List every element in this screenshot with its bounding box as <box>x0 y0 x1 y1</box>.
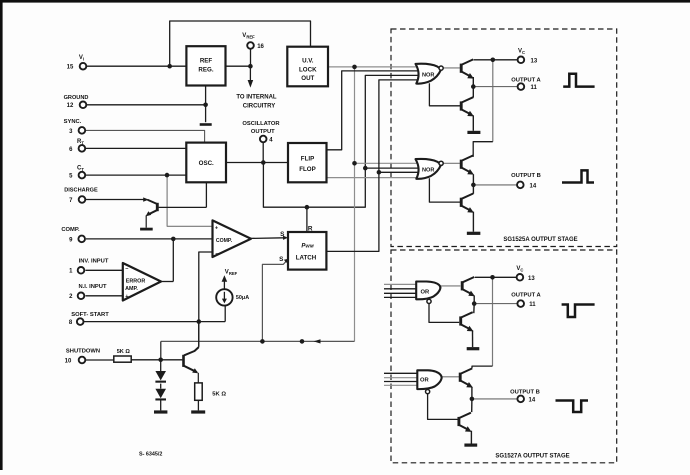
svg-text:S: S <box>279 256 284 263</box>
svg-text:50μA: 50μA <box>236 295 249 301</box>
svg-text:CIRCUITRY: CIRCUITRY <box>243 104 275 110</box>
svg-text:SOFT- START: SOFT- START <box>71 312 109 318</box>
svg-text:NOR: NOR <box>422 168 434 174</box>
svg-text:14: 14 <box>530 183 537 189</box>
svg-text:+: + <box>215 225 218 231</box>
svg-text:12: 12 <box>67 103 74 109</box>
svg-text:OUTPUT: OUTPUT <box>251 129 275 135</box>
svg-text:COMP.: COMP. <box>61 227 80 233</box>
svg-text:GROUND: GROUND <box>64 95 89 101</box>
svg-text:LOCK: LOCK <box>299 66 317 73</box>
svg-text:NOR: NOR <box>422 72 434 78</box>
svg-text:COMP.: COMP. <box>216 238 233 244</box>
svg-text:REF: REF <box>200 57 213 64</box>
svg-text:CT: CT <box>77 166 84 173</box>
svg-text:SG1527A OUTPUT STAGE: SG1527A OUTPUT STAGE <box>495 454 569 460</box>
svg-text:S- 6345/2: S- 6345/2 <box>139 452 162 458</box>
svg-text:14: 14 <box>529 397 536 403</box>
svg-text:INV. INPUT: INV. INPUT <box>79 259 109 265</box>
svg-text:13: 13 <box>531 58 538 64</box>
svg-text:11: 11 <box>529 302 536 308</box>
svg-text:11: 11 <box>531 85 538 91</box>
svg-text:16: 16 <box>257 44 264 50</box>
svg-text:TO INTERNAL: TO INTERNAL <box>236 95 277 101</box>
svg-text:REG.: REG. <box>198 66 213 73</box>
svg-text:OR: OR <box>420 289 430 295</box>
svg-text:N.I. INPUT: N.I. INPUT <box>78 284 106 290</box>
svg-text:SHUTDOWN: SHUTDOWN <box>66 349 100 355</box>
svg-text:5K Ω: 5K Ω <box>212 392 226 398</box>
svg-text:+: + <box>125 294 128 300</box>
svg-text:R: R <box>308 225 313 232</box>
svg-text:FLIP: FLIP <box>301 156 314 163</box>
svg-text:OUTPUT B: OUTPUT B <box>510 390 540 396</box>
svg-text:FLOP: FLOP <box>299 166 316 173</box>
svg-text:−: − <box>215 252 219 258</box>
svg-text:DISCHARGE: DISCHARGE <box>64 187 98 193</box>
svg-text:OR: OR <box>420 377 430 383</box>
svg-text:VREF: VREF <box>242 33 255 40</box>
svg-text:13: 13 <box>528 276 535 282</box>
svg-text:LATCH: LATCH <box>296 254 317 261</box>
svg-text:−: − <box>125 267 128 273</box>
svg-text:S: S <box>280 231 285 238</box>
svg-text:OSCILLATOR: OSCILLATOR <box>242 121 280 127</box>
svg-text:AMP.: AMP. <box>125 286 138 292</box>
svg-text:VI: VI <box>79 55 84 62</box>
svg-text:SYNC.: SYNC. <box>64 119 82 125</box>
svg-text:15: 15 <box>67 65 74 71</box>
svg-text:ERROR: ERROR <box>126 279 146 285</box>
svg-text:OSC.: OSC. <box>199 160 214 167</box>
svg-text:OUTPUT B: OUTPUT B <box>511 173 541 179</box>
svg-text:U.V.: U.V. <box>302 58 314 65</box>
svg-text:OUTPUT A: OUTPUT A <box>511 77 541 83</box>
svg-text:5K Ω: 5K Ω <box>117 349 131 355</box>
svg-text:OUTPUT A: OUTPUT A <box>511 293 541 299</box>
svg-text:SG1525A OUTPUT STAGE: SG1525A OUTPUT STAGE <box>503 237 577 243</box>
svg-text:VREF: VREF <box>225 270 238 277</box>
svg-text:RT: RT <box>77 139 84 146</box>
svg-text:10: 10 <box>65 358 72 364</box>
svg-text:OUT: OUT <box>301 75 314 82</box>
svg-text:VC: VC <box>518 48 525 55</box>
svg-text:VC: VC <box>516 266 523 273</box>
